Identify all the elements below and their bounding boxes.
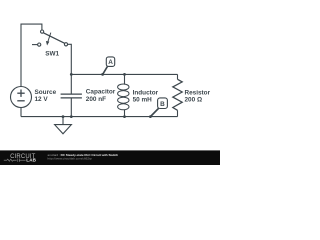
- capacitor C1: [61, 74, 82, 116]
- junction at bottom rail / inductor: [123, 115, 126, 118]
- svg-text:http://www.circuitlab.com/c662: http://www.circuitlab.com/c662tp: [48, 157, 92, 161]
- svg-text:Source: Source: [35, 89, 57, 96]
- junction at bottom rail / capacitor: [70, 115, 73, 118]
- svg-text:B: B: [160, 101, 165, 108]
- node A flag: [103, 57, 115, 75]
- svg-text:SW1: SW1: [45, 51, 59, 58]
- svg-text:A: A: [108, 59, 113, 66]
- ground: [55, 117, 72, 134]
- junction at top rail / inductor: [123, 73, 126, 76]
- wire bottom rail: [21, 116, 178, 118]
- node B flag: [150, 98, 167, 117]
- junction at top rail / capacitor: [70, 73, 73, 76]
- junction at bottom rail / ground: [62, 115, 65, 118]
- svg-text:Capacitor: Capacitor: [86, 89, 116, 96]
- footer bar: [0, 150, 220, 165]
- junction at top rail / node A: [101, 73, 104, 76]
- svg-text:LAB: LAB: [26, 158, 36, 163]
- voltage source V1: [11, 87, 32, 117]
- CircuitLab logo schematic flourish: [4, 159, 26, 162]
- svg-text:200 nF: 200 nF: [86, 96, 106, 103]
- switch SW1: [32, 30, 68, 46]
- svg-text:Resistor: Resistor: [185, 89, 211, 96]
- svg-text:Inductor: Inductor: [133, 89, 159, 96]
- svg-text:50 mH: 50 mH: [133, 96, 153, 103]
- junction at bottom rail / node B: [149, 115, 152, 118]
- wire switch SW1 right terminal down to top rail: [68, 44, 72, 74]
- CircuitLab logo: [10, 154, 37, 163]
- svg-text:12 V: 12 V: [35, 96, 49, 103]
- resistor R1: [173, 74, 182, 116]
- svg-text:200 Ω: 200 Ω: [185, 96, 203, 103]
- wire top rail: [71, 73, 177, 75]
- inductor L1: [118, 74, 129, 116]
- wire source top to switch SW1 top terminal: [21, 24, 42, 86]
